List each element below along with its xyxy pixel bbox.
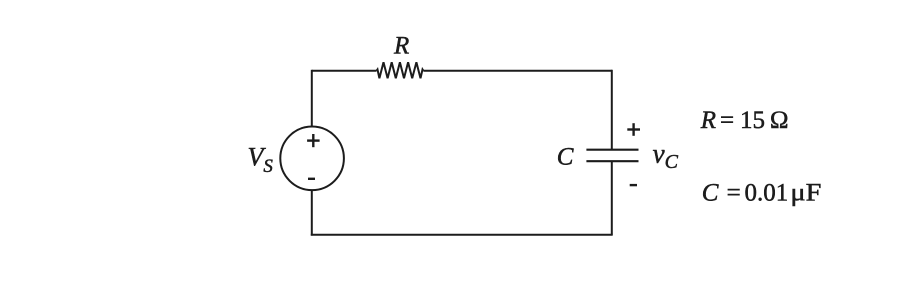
polarity + inside source [307,134,320,147]
wire: bottom segment [311,234,613,236]
svg-text:VS: VS [248,143,274,177]
svg-text:=: = [727,180,741,207]
svg-text:μF: μF [790,180,821,207]
polarity + above capacitor [627,123,640,136]
svg-text:C: C [557,144,574,171]
wire: right lower segment [611,161,613,235]
svg-text:R: R [393,33,409,60]
wire: left upper segment [311,70,313,127]
svg-text:vC: vC [653,139,679,174]
wire: top-right segment [423,70,611,72]
svg-text:=: = [720,107,734,134]
polarity - below capacitor [630,184,637,186]
svg-text:15: 15 [740,107,765,134]
wire: right upper segment [611,70,613,150]
wire: left lower segment [311,190,313,236]
voltage source VS [280,127,344,191]
resistor R [377,62,424,78]
label R = 15 ohm [700,107,789,134]
label C = 0.01 uF [702,180,822,207]
svg-text:Ω: Ω [770,107,789,134]
wire: top-left segment [312,70,377,72]
svg-text:0.01: 0.01 [745,180,789,207]
svg-text:R: R [700,107,716,134]
polarity - inside source [308,178,315,180]
capacitor C plates [586,150,638,162]
svg-text:C: C [702,180,719,207]
